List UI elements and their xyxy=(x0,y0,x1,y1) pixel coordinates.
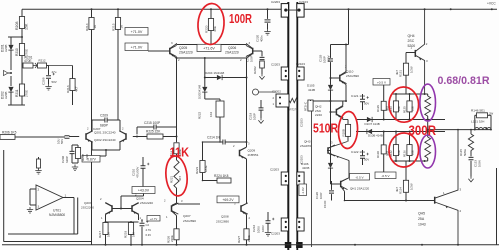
svg-text:R136: R136 xyxy=(402,150,406,157)
svg-text:C2103: C2103 xyxy=(299,0,308,4)
svg-text:R215: R215 xyxy=(112,23,116,31)
svg-text:Q201 2SC2240: Q201 2SC2240 xyxy=(94,131,116,135)
svg-text:R208: R208 xyxy=(15,21,19,30)
svg-text:R2O2: R2O2 xyxy=(253,66,257,74)
svg-text:R134: R134 xyxy=(399,187,403,194)
svg-text:D1O7 414B: D1O7 414B xyxy=(365,122,380,126)
svg-text:D2O34148: D2O34148 xyxy=(198,85,202,99)
svg-text:R227: R227 xyxy=(237,235,241,243)
svg-text:2240: 2240 xyxy=(315,113,322,117)
svg-text:220E: 220E xyxy=(247,235,251,242)
svg-text:D204 1N4148: D204 1N4148 xyxy=(205,71,225,75)
svg-text:Q209: Q209 xyxy=(248,149,256,153)
svg-text:2SA1220: 2SA1220 xyxy=(179,51,193,55)
svg-text:100P: 100P xyxy=(319,192,323,199)
svg-text:6.3V: 6.3V xyxy=(146,233,152,237)
svg-text:2SC2690: 2SC2690 xyxy=(346,74,359,78)
svg-text:2SA970: 2SA970 xyxy=(300,144,311,148)
svg-text:QH4: QH4 xyxy=(408,34,415,38)
svg-text:47u: 47u xyxy=(52,70,57,74)
svg-text:4.7U: 4.7U xyxy=(146,228,152,232)
svg-text:+71.0V: +71.0V xyxy=(131,30,143,34)
svg-text:100P: 100P xyxy=(249,55,253,62)
svg-text:C122 10U: C122 10U xyxy=(351,150,366,154)
svg-text:C216: C216 xyxy=(252,224,256,232)
svg-text:15K: 15K xyxy=(25,23,29,30)
svg-text:680P: 680P xyxy=(100,124,109,128)
svg-text:4E7: 4E7 xyxy=(395,187,399,192)
svg-text:25A: 25A xyxy=(418,217,425,221)
svg-text:RT2?1: RT2?1 xyxy=(290,108,299,112)
svg-text:510R: 510R xyxy=(313,122,338,136)
svg-text:Q204: Q204 xyxy=(136,197,144,201)
svg-text:C2103: C2103 xyxy=(296,62,305,66)
svg-text:2SC: 2SC xyxy=(408,39,415,43)
svg-text:Q205: Q205 xyxy=(179,46,187,50)
svg-text:+2.7V: +2.7V xyxy=(150,217,158,221)
svg-text:100R: 100R xyxy=(229,11,252,26)
svg-text:1K2: 1K2 xyxy=(209,111,213,117)
svg-text:R221: R221 xyxy=(170,175,174,183)
svg-text:+VCC: +VCC xyxy=(487,2,496,6)
svg-text:68E: 68E xyxy=(213,26,217,31)
svg-text:R218: R218 xyxy=(124,230,128,238)
svg-text:R206 1K5: R206 1K5 xyxy=(2,131,17,135)
svg-text:47U/50V: 47U/50V xyxy=(136,167,140,178)
svg-text:R131: R131 xyxy=(399,70,403,77)
svg-text:+43.0V: +43.0V xyxy=(138,189,150,193)
svg-text:C208: C208 xyxy=(42,77,46,85)
svg-text:Q203: Q203 xyxy=(84,201,92,205)
svg-text:C2202: C2202 xyxy=(272,90,281,94)
svg-text:1K: 1K xyxy=(120,25,124,29)
svg-text:L101 5JH: L101 5JH xyxy=(471,119,484,123)
svg-text:10E: 10E xyxy=(410,106,414,111)
svg-text:22K: 22K xyxy=(85,154,89,159)
svg-text:41KB: 41KB xyxy=(302,166,309,170)
svg-text:4K7: 4K7 xyxy=(178,175,182,181)
svg-text:R223: R223 xyxy=(195,166,199,174)
svg-text:Q208: Q208 xyxy=(221,215,229,219)
svg-text:RT2/-C: RT2/-C xyxy=(304,102,308,111)
svg-text:500V: 500V xyxy=(327,55,331,62)
svg-text:1K: 1K xyxy=(93,25,97,29)
svg-text:270E: 270E xyxy=(25,90,29,97)
svg-text:+69.2V: +69.2V xyxy=(222,198,234,202)
svg-text:C2203: C2203 xyxy=(271,0,280,4)
svg-text:R211: R211 xyxy=(15,89,19,97)
svg-text:100P: 100P xyxy=(253,113,257,120)
svg-text:R130: R130 xyxy=(376,151,380,158)
svg-text:R146 5E1: R146 5E1 xyxy=(471,108,485,112)
svg-text:2SC2690: 2SC2690 xyxy=(216,219,229,223)
svg-text:R214: R214 xyxy=(85,23,89,31)
svg-text:50V: 50V xyxy=(52,80,57,84)
svg-text:C2203: C2203 xyxy=(271,232,280,236)
svg-text:10E: 10E xyxy=(397,150,401,155)
svg-text:R10B: R10B xyxy=(342,129,346,136)
svg-text:400n: 400n xyxy=(260,35,264,42)
svg-text:100V: 100V xyxy=(261,225,265,232)
svg-text:Q207: Q207 xyxy=(183,214,191,218)
svg-text:R224 1K8: R224 1K8 xyxy=(214,174,229,178)
svg-text:R222: R222 xyxy=(198,111,202,119)
svg-text:620P: 620P xyxy=(65,156,69,163)
svg-text:2SC2240: 2SC2240 xyxy=(140,201,153,205)
svg-text:-1.0V: -1.0V xyxy=(301,187,305,194)
svg-text:10K: 10K xyxy=(132,232,136,237)
svg-text:C121 10U: C121 10U xyxy=(351,94,366,98)
svg-text:50V: 50V xyxy=(60,139,64,144)
svg-text:+0.5 V: +0.5 V xyxy=(377,80,387,84)
svg-text:A20B: A20B xyxy=(4,92,8,99)
svg-text:QH5: QH5 xyxy=(418,212,425,216)
svg-text:1/2W: 1/2W xyxy=(410,183,414,190)
svg-text:-0.5 V: -0.5 V xyxy=(355,175,364,179)
svg-text:C1O0: C1O0 xyxy=(323,200,327,208)
svg-text:0.68/0.81R: 0.68/0.81R xyxy=(438,75,490,87)
svg-text:C209: C209 xyxy=(100,114,108,118)
svg-text:3: 3 xyxy=(38,205,40,209)
svg-text:C2: C2 xyxy=(146,223,150,227)
svg-text:2N5551: 2N5551 xyxy=(248,153,259,157)
svg-text:R213: R213 xyxy=(66,85,70,93)
svg-text:QH1 2SA1220: QH1 2SA1220 xyxy=(350,186,369,190)
svg-text:Q110: Q110 xyxy=(346,70,354,74)
svg-text:C207: C207 xyxy=(93,127,101,131)
svg-text:+71.6V: +71.6V xyxy=(203,46,215,50)
svg-text:D10B 414B: D10B 414B xyxy=(368,133,383,137)
svg-text:QH3: QH3 xyxy=(304,140,311,144)
svg-text:220E: 220E xyxy=(170,235,174,242)
svg-text:1: 1 xyxy=(65,194,67,198)
svg-text:R220: R220 xyxy=(205,25,209,33)
svg-text:470E: 470E xyxy=(24,59,32,63)
svg-text:5M0e: 5M0e xyxy=(463,149,467,156)
svg-text:-0.5 V: -0.5 V xyxy=(381,174,390,178)
svg-text:4K7: 4K7 xyxy=(75,86,79,92)
svg-text:R129: R129 xyxy=(376,105,380,112)
svg-text:NJM45800: NJM45800 xyxy=(49,213,65,217)
svg-text:Q206: Q206 xyxy=(228,46,236,50)
svg-text:R135: R135 xyxy=(402,106,406,113)
svg-text:4E7: 4E7 xyxy=(395,70,399,75)
svg-text:R225 22K: R225 22K xyxy=(146,130,161,134)
svg-text:2SC2240: 2SC2240 xyxy=(81,206,94,210)
svg-text:1/2W: 1/2W xyxy=(410,66,414,73)
svg-text:11K: 11K xyxy=(170,145,190,160)
svg-text:A20B: A20B xyxy=(4,45,8,52)
svg-text:300R: 300R xyxy=(409,123,437,138)
svg-text:2SA1220: 2SA1220 xyxy=(225,51,239,55)
svg-text:Q202 2SC2240: Q202 2SC2240 xyxy=(94,138,116,142)
svg-text:2SC2690: 2SC2690 xyxy=(183,219,196,223)
svg-text:10E: 10E xyxy=(410,150,414,155)
svg-text:1943: 1943 xyxy=(418,223,426,227)
svg-text:R210: R210 xyxy=(15,48,19,56)
svg-text:10E: 10E xyxy=(397,106,401,111)
svg-text:C2103: C2103 xyxy=(299,118,303,127)
svg-text:100N: 100N xyxy=(478,160,482,167)
svg-text:C2203: C2203 xyxy=(271,63,280,67)
svg-text:C214 1N: C214 1N xyxy=(207,136,220,140)
svg-text:10K: 10K xyxy=(107,232,111,237)
svg-text:+71.0V: +71.0V xyxy=(131,45,143,49)
svg-text:R212: R212 xyxy=(39,59,46,63)
svg-text:414B: 414B xyxy=(308,88,315,92)
svg-text:C2203: C2203 xyxy=(270,168,279,172)
svg-text:2: 2 xyxy=(38,188,40,192)
svg-text:C215 100P: C215 100P xyxy=(144,121,160,125)
svg-text:R217: R217 xyxy=(98,230,102,238)
